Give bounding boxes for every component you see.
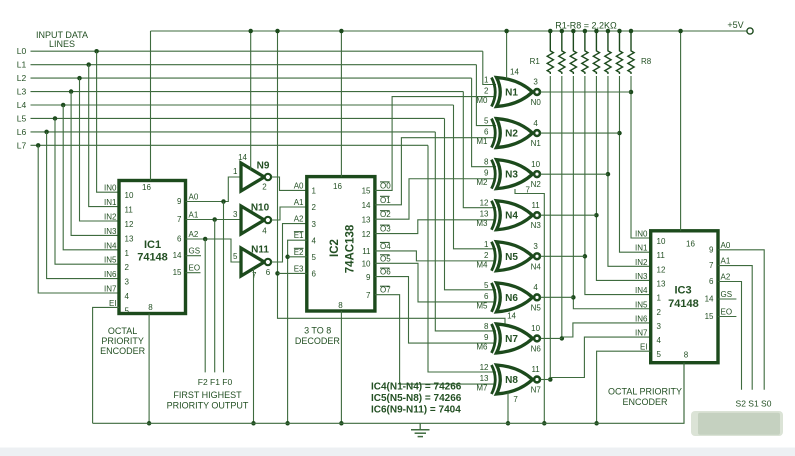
wire N8 output to IN7: [550, 337, 650, 377]
svg-text:16: 16: [142, 183, 151, 192]
junction N3 output on column: [606, 172, 611, 177]
svg-text:L7: L7: [17, 140, 27, 150]
xnor gate N2 (74266): [492, 119, 496, 148]
wire L7 row: [31, 144, 429, 146]
junction rail IC3 pin16: [678, 29, 683, 34]
wire IC3 EO stub: [718, 316, 736, 318]
svg-text:8: 8: [684, 351, 689, 360]
wire F1 drop: [214, 220, 216, 373]
svg-text:12: 12: [480, 199, 489, 208]
svg-text:L1: L1: [17, 60, 27, 70]
svg-text:OCTAL PRIORITY: OCTAL PRIORITY: [608, 387, 682, 397]
svg-text:IN2: IN2: [104, 213, 117, 222]
wire IC2 pin8 to ground bus: [340, 311, 342, 423]
wire L0 drop to gate N1 input: [483, 51, 496, 84]
wire pull-up column to IN0 (gate N1): [631, 76, 651, 238]
svg-text:N3: N3: [505, 170, 518, 181]
junction N5 output on column: [583, 254, 588, 259]
svg-text:O0: O0: [380, 181, 391, 190]
svg-text:+5V: +5V: [727, 20, 743, 30]
junction rail N1 pin14: [504, 29, 509, 34]
wire F0 drop: [223, 202, 225, 373]
svg-text:10: 10: [657, 237, 666, 246]
wire L4 drop to IC1 IN4: [63, 105, 119, 250]
junction rail R1: [548, 29, 553, 34]
svg-text:6: 6: [709, 277, 714, 286]
svg-text:M0: M0: [476, 96, 488, 105]
wire IC1 pin8 to ground bus: [148, 314, 150, 424]
wire IC3 A2 to S2: [718, 282, 742, 390]
resistor R1: [547, 31, 553, 74]
resistor R8: [628, 31, 634, 74]
+5V supply rail: [151, 30, 747, 32]
wire N4 output: [540, 214, 596, 216]
svg-text:LINES: LINES: [49, 39, 75, 49]
svg-text:1: 1: [657, 294, 662, 303]
wire L4 row: [31, 104, 454, 106]
svg-text:L2: L2: [17, 73, 27, 83]
svg-text:IN7: IN7: [104, 285, 117, 294]
svg-text:A2: A2: [721, 273, 731, 282]
svg-text:EO: EO: [189, 264, 201, 273]
svg-text:IN0: IN0: [635, 230, 648, 239]
svg-text:F2 F1 F0: F2 F1 F0: [198, 377, 233, 387]
svg-text:O4: O4: [380, 242, 391, 251]
svg-text:5: 5: [657, 350, 662, 359]
svg-text:14: 14: [705, 295, 714, 304]
junction rail R8: [629, 29, 634, 34]
xnor gate N5 (74266): [492, 242, 496, 271]
svg-text:PRIORITY OUTPUT: PRIORITY OUTPUT: [167, 401, 249, 411]
wire L2 drop to gate N3 input: [472, 78, 496, 167]
svg-text:IN7: IN7: [635, 329, 648, 338]
svg-text:5: 5: [484, 117, 489, 126]
svg-text:3: 3: [533, 78, 538, 87]
svg-text:FIRST HIGHEST: FIRST HIGHEST: [173, 390, 242, 400]
svg-text:6: 6: [484, 292, 489, 301]
svg-text:IC6(N9-N11) = 7404: IC6(N9-N11) = 7404: [371, 405, 461, 416]
svg-text:7: 7: [366, 291, 371, 300]
junction F0 tap: [221, 199, 226, 204]
resistor R6: [605, 31, 611, 74]
wire L0 drop to IC1 IN0: [97, 51, 119, 192]
svg-text:EI: EI: [640, 343, 648, 352]
svg-text:N2: N2: [505, 129, 518, 140]
svg-text:4: 4: [125, 292, 130, 301]
svg-text:L0: L0: [17, 46, 27, 56]
svg-text:A2: A2: [189, 230, 199, 239]
svg-text:9: 9: [484, 333, 489, 342]
wire L6 row: [31, 131, 436, 133]
svg-text:8: 8: [484, 158, 489, 167]
junction IC4 pin7 on bus: [542, 421, 547, 426]
svg-text:O1: O1: [380, 196, 391, 205]
junction E1-E2 tie: [285, 255, 290, 260]
wire IC3 A0 to S0: [718, 250, 764, 390]
wire IC4 pin7 to ground bus: [515, 189, 544, 423]
xnor gate N6 (74266): [492, 283, 496, 312]
svg-text:12: 12: [125, 220, 134, 229]
svg-text:IC5(N5-N8) = 74266: IC5(N5-N8) = 74266: [371, 393, 462, 404]
resistor R3: [570, 31, 576, 74]
svg-text:8: 8: [484, 322, 489, 331]
svg-text:4: 4: [533, 119, 538, 128]
svg-text:L4: L4: [17, 100, 27, 110]
svg-text:1: 1: [312, 187, 317, 196]
svg-text:2: 2: [262, 183, 267, 192]
wire O1 to gate N2 input M1: [375, 138, 496, 205]
junction IC3 EI on bus: [594, 421, 599, 426]
octal priority encoder IC3 74148 body: [651, 231, 718, 363]
svg-text:2: 2: [484, 87, 489, 96]
svg-text:3: 3: [312, 220, 317, 229]
wire IC1 EO stub: [186, 272, 201, 274]
wire O3 to gate N4 input M3: [375, 220, 496, 234]
wire L4 drop to gate N5 input: [454, 105, 497, 249]
svg-text:10: 10: [125, 191, 134, 200]
svg-text:6: 6: [312, 270, 317, 279]
svg-text:R1: R1: [530, 57, 541, 66]
svg-text:M6: M6: [476, 342, 488, 351]
junction L1 to IC1: [86, 62, 91, 67]
svg-text:IC1: IC1: [144, 239, 161, 251]
svg-text:A0: A0: [294, 181, 304, 190]
xnor gate N4 (74266): [492, 201, 496, 230]
svg-text:6: 6: [177, 235, 182, 244]
wire L1 drop to gate N2 input: [476, 65, 496, 126]
svg-text:ENCODER: ENCODER: [100, 346, 146, 356]
wire E2 row: [288, 256, 307, 258]
junction rail R6: [606, 29, 611, 34]
svg-text:4: 4: [657, 336, 662, 345]
wire pull-up column to IN2 (gate N3): [608, 76, 651, 266]
svg-text:A0: A0: [189, 193, 199, 202]
svg-text:M2: M2: [476, 178, 488, 187]
svg-text:M3: M3: [476, 219, 488, 228]
svg-text:8: 8: [148, 303, 153, 312]
junction N11 pin7 on bus: [251, 421, 256, 426]
junction L6 to IC1: [44, 130, 49, 135]
wire O0 to gate N1 input M0: [375, 97, 496, 191]
wire L0 row: [31, 50, 483, 52]
junction rail E3 feed: [275, 29, 280, 34]
svg-text:13: 13: [480, 210, 489, 219]
junction IC5 pin7 on bus: [506, 421, 511, 426]
svg-text:3: 3: [657, 322, 662, 331]
svg-text:7: 7: [177, 215, 182, 224]
svg-text:M5: M5: [476, 301, 488, 310]
svg-text:N7: N7: [531, 385, 542, 394]
junction E1E2 on bus: [285, 421, 290, 426]
octal priority encoder IC1 74148 body: [119, 181, 186, 314]
svg-text:12: 12: [480, 363, 489, 372]
wire pull-up column to IN4 (gate N5): [585, 76, 651, 295]
wire IC1 A0 to inverter N9: [186, 177, 241, 202]
xnor gate N3 (74266): [492, 160, 496, 189]
svg-text:PRIORITY: PRIORITY: [101, 336, 144, 346]
wire O6 to gate N7 input M6: [375, 277, 496, 343]
resistor R7: [616, 31, 622, 74]
wire N5 output: [540, 255, 584, 257]
junction L2 to IC1: [77, 76, 82, 81]
svg-text:74AC138: 74AC138: [345, 224, 357, 273]
svg-text:O3: O3: [380, 225, 391, 234]
wire pull-up column to IN3 (gate N4): [596, 76, 650, 280]
svg-text:IN2: IN2: [635, 258, 648, 267]
svg-text:15: 15: [705, 312, 714, 321]
resistor R2: [559, 31, 565, 74]
wire IC1 EI to ground bus: [93, 307, 119, 423]
wire IC5 pin7 (N8) to ground bus: [507, 393, 509, 424]
wire +5V vertical to E3 and IC5 pin14: [278, 31, 506, 325]
wire N6 output: [540, 296, 573, 298]
svg-text:N2: N2: [531, 180, 542, 189]
svg-text:N10: N10: [251, 203, 270, 214]
svg-text:3: 3: [233, 210, 238, 219]
svg-text:A2: A2: [294, 215, 304, 224]
svg-text:O2: O2: [380, 210, 391, 219]
svg-text:IN4: IN4: [104, 241, 117, 250]
wire O7 to gate N8 input M7: [375, 295, 496, 384]
wire N2 output: [540, 132, 619, 134]
junction N6 output on column: [571, 295, 576, 300]
wire L2 drop to IC1 IN2: [80, 78, 120, 221]
svg-text:4: 4: [262, 227, 267, 236]
junction N4 output on column: [594, 213, 599, 218]
svg-text:ENCODER: ENCODER: [622, 397, 668, 407]
svg-text:10: 10: [531, 324, 540, 333]
svg-text:7: 7: [709, 261, 714, 270]
svg-text:74148: 74148: [137, 252, 168, 264]
svg-text:13: 13: [657, 279, 666, 288]
svg-text:11: 11: [657, 251, 666, 260]
svg-text:9: 9: [177, 197, 182, 206]
svg-text:12: 12: [657, 265, 666, 274]
svg-text:L6: L6: [17, 127, 27, 137]
svg-text:15: 15: [362, 187, 371, 196]
junction IC1 pin8 on bus: [147, 421, 152, 426]
resistor R5: [593, 31, 599, 74]
wire pull-up column to IN1 (gate N2): [619, 76, 650, 252]
svg-text:N7: N7: [505, 334, 518, 345]
svg-text:IN4: IN4: [635, 286, 648, 295]
svg-text:S2 S1 S0: S2 S1 S0: [736, 399, 772, 409]
wire N11 pin7 to ground bus: [253, 269, 255, 424]
xnor gate N7 (74266): [492, 324, 496, 353]
svg-text:10: 10: [362, 260, 371, 269]
junction N2 output on column: [617, 131, 622, 136]
svg-text:N11: N11: [251, 245, 269, 256]
svg-text:13: 13: [362, 215, 371, 224]
junction N1 output on column: [629, 90, 634, 95]
wire L1 drop to IC1 IN1: [89, 65, 119, 207]
svg-text:DECODER: DECODER: [295, 336, 341, 346]
wire L5 row: [31, 117, 445, 119]
svg-text:IC3: IC3: [674, 285, 691, 297]
wire L1 row: [31, 64, 477, 66]
svg-text:7: 7: [252, 271, 257, 280]
svg-text:8: 8: [338, 301, 343, 310]
svg-text:2: 2: [312, 203, 317, 212]
wire N9 output to IC2 A0: [271, 177, 307, 190]
svg-text:16: 16: [686, 240, 695, 249]
svg-text:14: 14: [362, 201, 371, 210]
svg-text:IN3: IN3: [635, 272, 648, 281]
svg-text:1: 1: [484, 76, 489, 85]
svg-text:11: 11: [531, 201, 540, 210]
svg-text:IC2: IC2: [329, 239, 341, 257]
wire L3 row: [31, 91, 464, 93]
wire E3 row to +5V: [278, 272, 307, 274]
svg-text:11: 11: [531, 365, 540, 374]
wire pull-up column R2 bottom: [561, 76, 563, 338]
svg-text:IC4(N1-N4) = 74266: IC4(N1-N4) = 74266: [371, 382, 462, 393]
svg-text:IN0: IN0: [104, 184, 117, 193]
wire IC3 A1 to S1: [718, 266, 752, 390]
wire N9 pin14 to +5V rail: [250, 31, 252, 170]
svg-text:GS: GS: [189, 247, 201, 256]
svg-text:6: 6: [266, 268, 271, 277]
svg-text:14: 14: [173, 251, 182, 260]
junction rail IC2 pin16: [339, 29, 344, 34]
svg-text:L3: L3: [17, 87, 27, 97]
svg-text:4: 4: [312, 236, 317, 245]
junction rail R7: [617, 29, 622, 34]
wire IC3 EI to ground bus: [597, 351, 651, 423]
svg-text:GS: GS: [721, 290, 733, 299]
wire IC1 pin16 to +5V rail: [150, 31, 152, 181]
svg-text:A1: A1: [294, 198, 304, 207]
resistor R4: [582, 31, 588, 74]
wire pull-up column R1 bottom: [549, 76, 551, 379]
wire N3 output: [540, 173, 608, 175]
svg-text:3: 3: [125, 278, 130, 287]
junction N8 output on column: [548, 377, 553, 382]
svg-text:1: 1: [233, 167, 238, 176]
svg-text:11: 11: [125, 206, 134, 215]
wire pull-up column to IN5 (gate N6): [573, 76, 650, 309]
wire O4 to gate N5 input M4: [375, 251, 496, 261]
svg-text:5: 5: [233, 252, 238, 261]
svg-text:E3: E3: [294, 264, 304, 273]
svg-text:R8: R8: [641, 57, 652, 66]
svg-text:N6: N6: [505, 293, 518, 304]
svg-text:3 TO 8: 3 TO 8: [304, 326, 331, 336]
wire N8 output: [540, 378, 550, 380]
wire L6 drop to IC1 IN6: [47, 132, 119, 279]
svg-text:3: 3: [533, 242, 538, 251]
xnor gate N1 (74266): [492, 78, 496, 107]
junction rail N9 pin14: [248, 29, 253, 34]
wire IC3 pin16 to +5V rail: [680, 31, 682, 231]
svg-text:N0: N0: [531, 98, 542, 107]
svg-text:IN6: IN6: [635, 314, 648, 323]
watermark blob: [691, 411, 783, 436]
svg-text:N5: N5: [531, 303, 542, 312]
svg-text:A1: A1: [721, 257, 731, 266]
wire L5 drop to gate N6 input: [445, 118, 497, 289]
svg-text:2: 2: [484, 251, 489, 260]
svg-text:O5: O5: [380, 254, 391, 263]
wire L5 drop to IC1 IN5: [55, 118, 119, 264]
svg-text:A1: A1: [189, 211, 199, 220]
svg-text:15: 15: [173, 268, 182, 277]
svg-text:N6: N6: [531, 344, 542, 353]
svg-text:N4: N4: [531, 262, 542, 271]
svg-text:7: 7: [513, 395, 518, 404]
svg-text:9: 9: [484, 169, 489, 178]
svg-text:2: 2: [657, 308, 662, 317]
svg-text:4: 4: [533, 283, 538, 292]
svg-text:N1: N1: [531, 139, 542, 148]
svg-text:N4: N4: [505, 211, 518, 222]
svg-text:5: 5: [125, 306, 130, 315]
xnor gate N8 (74266): [492, 365, 496, 394]
svg-text:5: 5: [484, 281, 489, 290]
junction rail R3: [571, 29, 576, 34]
svg-text:9: 9: [366, 273, 371, 282]
svg-text:O6: O6: [380, 268, 391, 277]
wire L7 drop to gate N8 input: [428, 145, 496, 372]
wire IC1 A2 to inverter N11: [186, 239, 241, 262]
inverter N10 (7404): [241, 206, 264, 234]
junction L7 to IC1: [36, 143, 41, 148]
wire IC1 A1 to inverter N10: [186, 219, 241, 221]
3-to-8 decoder IC2 74AC138 body: [307, 177, 375, 311]
svg-text:O7: O7: [380, 286, 391, 295]
wire N1 pin14 to +5V rail: [506, 31, 508, 79]
svg-text:12: 12: [362, 230, 371, 239]
svg-text:E1: E1: [294, 231, 304, 240]
svg-text:IN1: IN1: [635, 244, 648, 253]
junction F2 tap: [203, 237, 208, 242]
svg-text:EI: EI: [109, 299, 117, 308]
svg-text:OCTAL: OCTAL: [108, 326, 137, 336]
wire F2 drop: [204, 239, 206, 372]
junction L4 to IC1: [61, 103, 65, 108]
svg-text:5: 5: [312, 253, 317, 262]
svg-text:M4: M4: [476, 260, 488, 269]
svg-text:A0: A0: [721, 241, 731, 250]
junction N7 output on column: [560, 336, 565, 341]
inverter N11 (7404): [241, 248, 264, 276]
svg-text:E2: E2: [294, 248, 304, 257]
junction L3 to IC1: [69, 89, 74, 94]
svg-text:10: 10: [531, 160, 540, 169]
wire N11 output to IC2 A2: [271, 224, 307, 262]
wire IC1 GS stub: [186, 255, 202, 257]
ground bus: [93, 363, 684, 424]
wire IC3 pin8 to ground bus: [683, 363, 685, 424]
svg-text:IN3: IN3: [104, 227, 117, 236]
ground symbol: [419, 423, 421, 430]
bottom gray strip: [0, 448, 795, 456]
svg-text:N8: N8: [505, 375, 518, 386]
wire O2 to gate N3 input M2: [375, 179, 496, 219]
svg-text:N3: N3: [531, 221, 542, 230]
svg-text:6: 6: [484, 128, 489, 137]
wire L3 drop to IC1 IN3: [71, 92, 119, 236]
inverter N9 (7404): [241, 163, 264, 191]
wire L6 drop to gate N7 input: [435, 132, 496, 331]
svg-text:74148: 74148: [668, 298, 699, 310]
svg-text:N5: N5: [505, 252, 518, 263]
svg-text:IN5: IN5: [635, 300, 648, 309]
svg-text:IN6: IN6: [104, 270, 117, 279]
+5V terminal: [747, 28, 753, 34]
wire N7 output to IN6: [562, 323, 651, 337]
svg-text:14: 14: [507, 312, 516, 321]
